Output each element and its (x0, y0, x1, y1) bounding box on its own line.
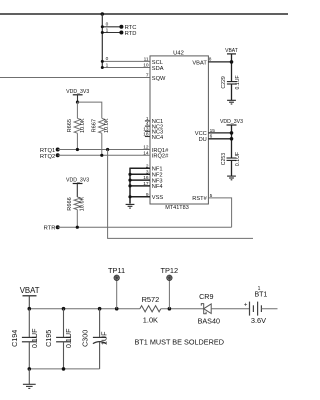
svg-text:10.0K: 10.0K (104, 118, 110, 133)
wire VDD vertical (231, 125, 233, 158)
wire top bus (0, 13, 288, 15)
testpoint TP12 (160, 266, 178, 309)
wire VBAT vertical (231, 54, 233, 82)
battery BT1 3.6V (244, 286, 278, 325)
ground battery rail (23, 369, 36, 389)
svg-text:SCL: SCL (152, 60, 163, 66)
capacitor C300 1UF polarized (80, 309, 108, 369)
junction rail TP12 (168, 307, 172, 311)
wire battery rail left (29, 308, 140, 310)
node RTC (101, 22, 137, 32)
wire RTR to RST# (208, 198, 231, 227)
svg-text:C300: C300 (80, 330, 89, 347)
svg-text:RTD: RTD (125, 31, 137, 37)
node RTQ1 (40, 148, 150, 155)
svg-text:IRQ2#: IRQ2# (152, 154, 169, 160)
wire DU pin6 (208, 138, 231, 140)
junction R665-RTQ1 (76, 148, 79, 151)
junction bottom C195 (62, 367, 66, 371)
svg-text:0.1UF: 0.1UF (64, 328, 73, 348)
svg-text:VBAT: VBAT (225, 48, 238, 54)
svg-text:NC4: NC4 (152, 135, 163, 141)
svg-text:RST#: RST# (192, 196, 207, 202)
wire SCL (101, 56, 150, 63)
node RTR (44, 225, 232, 232)
svg-text:10.0K: 10.0K (80, 118, 86, 133)
wire SDA (101, 62, 150, 69)
junction VBAT (230, 60, 234, 64)
svg-text:C253: C253 (221, 153, 227, 166)
resistor R667 10.0K (91, 118, 110, 155)
junction VDD split (76, 101, 79, 104)
svg-text:1: 1 (106, 27, 109, 33)
power VBAT bottom (20, 286, 40, 309)
svg-text:R665: R665 (67, 119, 73, 132)
wire branch to R667 (78, 102, 102, 118)
svg-text:TP12: TP12 (160, 266, 178, 275)
svg-text:1UF: 1UF (100, 331, 109, 345)
svg-text:VDD_3V3: VDD_3V3 (66, 89, 89, 95)
svg-text:0.1UF: 0.1UF (235, 152, 241, 166)
junction rail C300 (98, 307, 102, 311)
svg-text:C194: C194 (10, 330, 19, 347)
resistor R666 10.0K (67, 196, 86, 227)
wire IRQ1 stub down and right (108, 150, 253, 239)
svg-text:0.1UF: 0.1UF (30, 328, 39, 348)
svg-text:BAS40: BAS40 (198, 317, 220, 326)
svg-text:VDD_3V3: VDD_3V3 (66, 178, 89, 184)
wire VBAT pin8 (208, 61, 231, 63)
wire bottom rail (29, 368, 99, 370)
svg-text:RTQ2: RTQ2 (40, 154, 55, 160)
diode CR9 BAS40 (198, 292, 220, 326)
junction rail VBAT (28, 307, 32, 311)
svg-text:0: 0 (106, 22, 109, 28)
svg-text:+: + (244, 303, 248, 309)
junction rail C195 (62, 307, 66, 311)
junction bottom C194 (28, 367, 32, 371)
power VBAT upper (225, 48, 238, 54)
svg-text:10.0K: 10.0K (80, 196, 86, 211)
power VDD_3V3 right (220, 119, 243, 125)
wire NF bracket (128, 168, 150, 204)
power VDD_3V3 upper (66, 89, 89, 102)
op-amp U42 body (IC M41T83 RTC) (150, 56, 208, 204)
svg-text:1.0K: 1.0K (143, 315, 158, 324)
svg-text:VDD_3V3: VDD_3V3 (220, 119, 243, 125)
wire VCC pin15 (208, 132, 231, 134)
svg-text:SQW: SQW (152, 76, 166, 82)
svg-text:C195: C195 (44, 330, 53, 347)
capacitor C253 0.1UF (221, 152, 241, 176)
pin stub NC1 (145, 120, 150, 122)
ground C253 (227, 176, 236, 180)
resistor R665 10.0K (67, 102, 86, 149)
svg-text:RTR: RTR (44, 226, 56, 232)
junction IRQ1 tap (106, 148, 109, 151)
svg-text:0.1UF: 0.1UF (235, 75, 241, 89)
capacitor C195 0.1UF (44, 309, 73, 369)
svg-text:SDA: SDA (152, 66, 164, 72)
wire diode to battery (211, 308, 249, 310)
capacitor C229 0.1UF (221, 75, 241, 100)
svg-text:BT1 MUST BE SOLDERED: BT1 MUST BE SOLDERED (135, 339, 225, 346)
svg-text:C229: C229 (221, 76, 227, 89)
ground NF/VSS (126, 204, 135, 208)
junction rail TP11 (115, 307, 119, 311)
svg-text:BT1: BT1 (254, 291, 267, 298)
svg-text:R667: R667 (91, 119, 97, 132)
svg-text:7: 7 (146, 73, 149, 79)
wire battery rail right (161, 308, 204, 310)
svg-text:MT41T83: MT41T83 (165, 205, 189, 211)
svg-text:R666: R666 (67, 197, 73, 210)
testpoint TP11 (108, 266, 125, 309)
svg-text:3.6V: 3.6V (251, 316, 266, 325)
svg-text:NF4: NF4 (152, 184, 163, 190)
svg-text:1: 1 (106, 62, 109, 68)
svg-text:CR9: CR9 (199, 292, 213, 301)
svg-text:R572: R572 (142, 295, 160, 304)
node RTD (101, 27, 137, 37)
junction DU (230, 137, 234, 141)
wire SQW (0, 77, 150, 79)
svg-text:U42: U42 (173, 51, 184, 57)
power VDD_3V3 lower (66, 178, 89, 197)
pin stub NC2 (145, 125, 150, 127)
svg-text:11: 11 (144, 56, 149, 62)
junction R667-RTQ2 (100, 154, 103, 157)
svg-text:VBAT: VBAT (20, 286, 40, 295)
pin stub NC3 (145, 130, 150, 132)
svg-text:VBAT: VBAT (192, 61, 207, 67)
resistor R572 1.0K (140, 295, 161, 324)
ground C229 (227, 100, 236, 104)
junction R666-RTR (76, 226, 79, 229)
svg-text:TP11: TP11 (108, 266, 125, 275)
svg-text:DU: DU (199, 137, 207, 143)
junction bus tap (101, 12, 105, 16)
node RTQ2 (40, 153, 150, 160)
wire I2C vertical (101, 14, 103, 68)
pin stub NC4 (145, 136, 150, 138)
svg-text:0: 0 (106, 56, 109, 62)
capacitor C194 0.1UF (10, 309, 39, 369)
svg-text:VSS: VSS (152, 195, 164, 201)
junction VCC (230, 131, 234, 135)
svg-text:10: 10 (143, 63, 149, 69)
